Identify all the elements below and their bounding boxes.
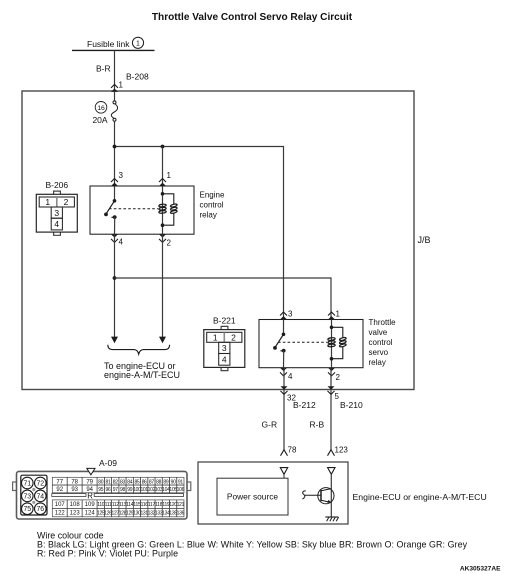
svg-text:R: Red P: Pink V: Violet PU: P: R: Red P: Pink V: Violet PU: Purple — [37, 549, 178, 559]
junction dot at relay coil branch — [161, 145, 165, 149]
wire: engine relay pin 4 down to arrow — [114, 234, 116, 337]
svg-text:Power source: Power source — [227, 492, 279, 502]
svg-text:72: 72 — [36, 480, 44, 487]
svg-text:108: 108 — [70, 502, 81, 508]
svg-text:99: 99 — [127, 487, 132, 493]
connector A-09: terminal grid 77-106 — [52, 477, 184, 493]
svg-text:109: 109 — [85, 502, 96, 508]
svg-text:Engine: Engine — [200, 191, 225, 200]
svg-text:1: 1 — [213, 332, 218, 342]
svg-text:valve: valve — [369, 328, 388, 337]
svg-text:R: R — [87, 491, 93, 500]
svg-text:AK305327AE: AK305327AE — [460, 566, 501, 573]
connector A-09: housing — [13, 471, 191, 519]
svg-text:4: 4 — [54, 219, 59, 229]
relay K1: pin pass-through arrows — [111, 179, 166, 243]
svg-text:89: 89 — [163, 479, 168, 485]
svg-text:81: 81 — [106, 479, 111, 485]
svg-text:B-206: B-206 — [45, 180, 68, 190]
svg-text:87: 87 — [149, 479, 154, 485]
svg-text:4: 4 — [222, 355, 227, 365]
fuse number 16 (circled) — [95, 102, 107, 114]
connector B-221 — [204, 315, 245, 370]
wire: fusible link to J/B — [114, 50, 116, 91]
svg-text:A-09: A-09 — [99, 458, 117, 468]
svg-text:3: 3 — [54, 208, 59, 218]
svg-text:B-221: B-221 — [213, 315, 236, 325]
svg-text:3: 3 — [288, 310, 293, 319]
svg-text:88: 88 — [156, 479, 161, 485]
svg-text:84: 84 — [127, 479, 132, 485]
svg-text:93: 93 — [71, 487, 78, 493]
relay K1: parallel resistor — [163, 194, 178, 225]
relay K2: parallel resistor — [332, 327, 347, 358]
svg-text:71: 71 — [23, 480, 31, 487]
J/B exit arrows right — [328, 386, 335, 394]
wire: switched feed to throttle relay pin 1 — [115, 278, 332, 319]
fusible link label — [87, 37, 144, 49]
arrowhead (to engine-ECU, left) — [111, 337, 118, 344]
svg-text:20A: 20A — [92, 115, 107, 125]
svg-text:74: 74 — [36, 493, 44, 500]
fuse element (S-curve with end circles) — [111, 91, 117, 121]
svg-text:136: 136 — [177, 511, 185, 517]
label Throttle valve control servo relay — [369, 318, 397, 367]
junction dot at fuse node — [113, 145, 117, 149]
svg-text:73: 73 — [23, 493, 31, 500]
svg-text:77: 77 — [56, 479, 63, 485]
svg-text:82: 82 — [113, 479, 118, 485]
wire G-R: throttle relay pin 4 to ECU pin 78 — [283, 368, 285, 450]
male terminal chevron right — [328, 450, 335, 456]
connector A-09: key rib with R — [52, 491, 184, 500]
svg-text:123: 123 — [335, 446, 349, 455]
svg-text:2: 2 — [167, 239, 172, 248]
svg-text:engine-A-M/T-ECU: engine-A-M/T-ECU — [104, 370, 180, 380]
svg-text:3: 3 — [119, 171, 124, 180]
svg-text:75: 75 — [23, 506, 31, 513]
svg-text:80: 80 — [98, 479, 103, 485]
svg-text:relay: relay — [200, 211, 217, 220]
relay K1: coil junction dots — [161, 192, 165, 227]
svg-text:relay: relay — [369, 358, 386, 367]
junction dot on pin-4 wire — [113, 276, 117, 280]
svg-text:R-B: R-B — [310, 420, 325, 430]
svg-text:J/B: J/B — [418, 235, 431, 245]
female terminal triangle pin 123 — [328, 468, 335, 475]
relay K1: coil — [159, 186, 167, 234]
svg-text:1: 1 — [336, 310, 341, 319]
svg-text:98: 98 — [120, 487, 125, 493]
connector A-09: round terminal block 71-76 — [21, 475, 47, 515]
svg-text:Engine-ECU or engine-A-M/T-ECU: Engine-ECU or engine-A-M/T-ECU — [353, 492, 487, 502]
svg-text:1: 1 — [136, 41, 140, 48]
svg-text:78: 78 — [71, 479, 78, 485]
svg-text:B-212: B-212 — [293, 400, 316, 410]
svg-text:16: 16 — [97, 105, 105, 112]
relay K2: actuating link (dashed) — [278, 341, 327, 343]
svg-text:2: 2 — [231, 332, 236, 342]
svg-text:Throttle: Throttle — [369, 318, 397, 327]
svg-text:1: 1 — [45, 197, 50, 207]
svg-text:G-R: G-R — [262, 420, 278, 430]
svg-text:107: 107 — [55, 502, 66, 508]
J/B exit arrows left — [281, 386, 288, 394]
svg-text:92: 92 — [56, 487, 63, 493]
svg-text:76: 76 — [36, 506, 44, 513]
svg-text:control: control — [369, 338, 393, 347]
svg-text:83: 83 — [120, 479, 125, 485]
wire: engine relay pin 2 down to arrow — [162, 234, 164, 337]
relay K2: body — [259, 320, 363, 368]
svg-text:97: 97 — [113, 487, 118, 493]
svg-text:4: 4 — [288, 372, 293, 381]
svg-text:123: 123 — [70, 511, 81, 517]
ECU box — [198, 462, 348, 524]
svg-text:B-210: B-210 — [340, 400, 363, 410]
svg-text:2: 2 — [336, 373, 341, 382]
label To engine-ECU — [104, 361, 180, 380]
svg-text:servo: servo — [369, 348, 389, 357]
wire: branch to engine control relay pin 1 — [162, 147, 164, 187]
relay K2: switch contacts — [273, 320, 286, 368]
connector A-09: terminal grid 107-136 — [52, 500, 184, 517]
female terminal triangle pin 78 — [280, 468, 287, 479]
connector arrow into J/B at B-208 pin 1 — [111, 84, 118, 92]
connector B-206 — [36, 180, 77, 235]
ground — [325, 517, 338, 521]
svg-text:3: 3 — [222, 343, 227, 353]
svg-text:91: 91 — [178, 479, 183, 485]
relay K1: actuating link (dashed) — [109, 208, 158, 210]
svg-text:85: 85 — [134, 479, 139, 485]
transistor Q (output driver) — [302, 475, 334, 517]
svg-text:122: 122 — [55, 511, 66, 517]
svg-text:control: control — [200, 201, 224, 210]
svg-text:1: 1 — [119, 81, 124, 90]
male terminal chevron left — [281, 450, 288, 456]
wire R-B: throttle relay pin 2 to ECU pin 123 — [330, 368, 332, 450]
svg-text:78: 78 — [288, 446, 297, 455]
relay K2: pin pass-through arrows — [280, 312, 335, 376]
brace under arrows — [108, 345, 170, 354]
wire: fuse down to node — [114, 121, 116, 186]
svg-text:124: 124 — [85, 511, 96, 517]
fusible link bar — [72, 49, 155, 51]
power source box — [217, 478, 288, 515]
junction block J/B box — [22, 91, 414, 390]
svg-text:121: 121 — [177, 502, 185, 508]
svg-text:96: 96 — [106, 487, 111, 493]
svg-text:B-R: B-R — [96, 64, 111, 74]
relay K2: coil junction dots — [330, 326, 334, 361]
svg-text:B-208: B-208 — [126, 72, 149, 82]
svg-text:90: 90 — [171, 479, 176, 485]
arrowhead (to engine-ECU, right) — [159, 337, 166, 344]
wire: bus to throttle relay pin 3 — [115, 147, 284, 320]
svg-text:Throttle Valve Control Servo R: Throttle Valve Control Servo Relay Circu… — [152, 12, 353, 23]
relay K2: coil — [328, 320, 336, 368]
svg-text:4: 4 — [119, 238, 124, 247]
label Engine control relay — [200, 191, 225, 220]
svg-text:Fusible link: Fusible link — [87, 39, 130, 49]
connector A-09: position marker — [87, 468, 95, 474]
svg-text:1: 1 — [167, 171, 172, 180]
relay K1: body — [90, 186, 194, 234]
svg-text:86: 86 — [142, 479, 147, 485]
svg-text:95: 95 — [98, 487, 103, 493]
relay K1: switch contacts — [104, 186, 117, 234]
svg-text:79: 79 — [86, 479, 93, 485]
svg-text:2: 2 — [64, 197, 69, 207]
svg-text:5: 5 — [335, 392, 340, 401]
svg-text:106: 106 — [177, 487, 185, 493]
